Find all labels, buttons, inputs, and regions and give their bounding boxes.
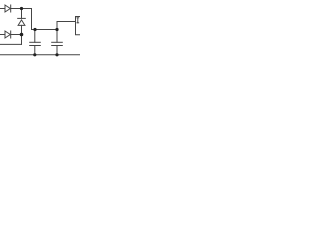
wire (56, 22, 58, 30)
node junction dot (20, 7, 23, 10)
wire (31, 9, 33, 30)
capacitor C2 (52, 30, 63, 55)
wire (11, 8, 32, 10)
diode D3 (18, 9, 26, 35)
node junction dot (20, 33, 24, 37)
node junction dot (33, 53, 36, 56)
diode D2 (5, 31, 11, 38)
wire (0, 54, 80, 56)
wire (21, 35, 23, 45)
wire (11, 34, 22, 36)
capacitor C1 (30, 30, 41, 55)
IC U1 box (76, 17, 81, 35)
wire (57, 21, 76, 23)
node junction dot (55, 28, 58, 31)
wire (32, 29, 58, 31)
wire (0, 8, 5, 10)
wire (0, 34, 5, 36)
diode D1 (5, 5, 11, 12)
node junction dot (33, 28, 36, 31)
wire (0, 43, 22, 45)
node junction dot (55, 53, 58, 56)
IC U1 label (77, 18, 79, 23)
